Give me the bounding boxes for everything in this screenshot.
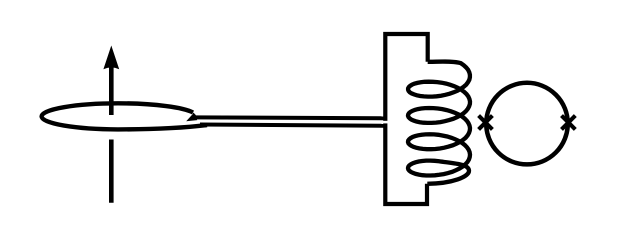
bracket notch at shaft junction bbox=[383, 121, 388, 124]
core bracket bbox=[385, 34, 427, 204]
rotation direction arrowhead bbox=[186, 113, 197, 122]
lamp circle bbox=[486, 83, 568, 165]
shaft top wire bbox=[194, 115, 386, 120]
right terminal cross bbox=[562, 116, 576, 130]
left terminal cross bbox=[479, 116, 493, 130]
shaft bottom wire bbox=[200, 125, 386, 126]
rotation axis arrow bbox=[103, 46, 119, 203]
coil bbox=[408, 62, 470, 184]
rotating loop ellipse bbox=[42, 103, 207, 129]
